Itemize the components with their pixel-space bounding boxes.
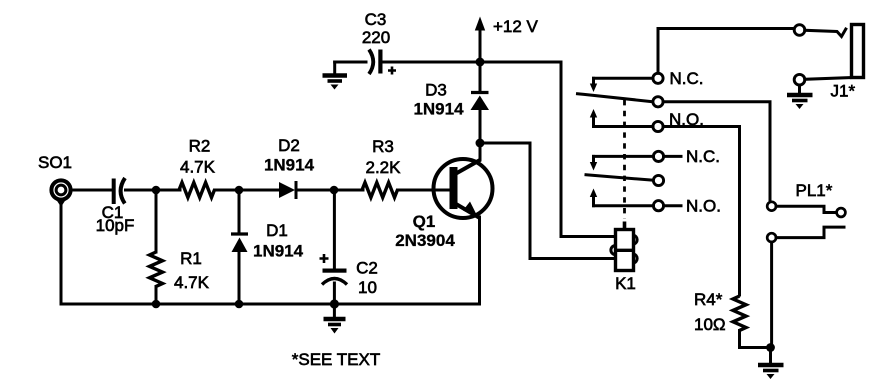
wire node to D2 <box>243 189 279 192</box>
wire D2 to node <box>297 189 330 192</box>
wire N.O.1 to R4 <box>663 127 740 296</box>
junction dot (C2/rail) <box>330 299 339 308</box>
svg-text:PL1*: PL1* <box>796 181 833 200</box>
wire node to R2 <box>160 189 180 192</box>
svg-text:C3: C3 <box>365 10 387 29</box>
contact N.O. pole1 <box>594 121 664 131</box>
capacitor C3 <box>369 50 380 75</box>
wire C1 to node <box>126 189 153 192</box>
plug PL1 sleeve terminal <box>767 227 844 242</box>
transistor Q1 <box>434 159 493 218</box>
ground (J1) <box>787 85 813 109</box>
relay coil K1 <box>611 222 637 271</box>
resistor R4 <box>733 296 766 348</box>
wire +12V rail to relay drop <box>484 62 615 237</box>
svg-text:10: 10 <box>358 278 377 297</box>
node dot (D2/C2/R3) <box>330 186 339 195</box>
diode D1 <box>231 194 248 300</box>
contact N.C. pole1 <box>590 73 663 92</box>
armature pole1 <box>578 94 654 102</box>
svg-text:R4*: R4* <box>694 290 723 309</box>
resistor R3 <box>362 183 397 198</box>
svg-text:D3: D3 <box>425 81 447 100</box>
ground (R4/PL1) <box>758 351 784 379</box>
plus sign C2 <box>320 254 329 263</box>
wire ground to C3 <box>335 61 366 64</box>
junction dot (collector node) <box>476 139 485 148</box>
resistor R2 <box>179 183 214 198</box>
svg-text:*SEE TEXT: *SEE TEXT <box>292 350 381 369</box>
wire node to R3 <box>338 189 363 192</box>
svg-text:4.7K: 4.7K <box>180 158 216 177</box>
wire N.C.1 up and to J1 tip <box>658 29 794 74</box>
contact N.C. pole2 <box>590 151 681 170</box>
ground (C2) <box>324 308 346 334</box>
wire R2 to node <box>215 189 236 192</box>
wire collector node to relay coil <box>484 143 615 259</box>
svg-text:D2: D2 <box>278 136 300 155</box>
svg-text:C2: C2 <box>356 259 378 278</box>
junction dot (+12V node) <box>476 58 485 67</box>
dashed mechanical link <box>623 100 626 219</box>
armature pole2 <box>586 175 654 181</box>
svg-text:N.C.: N.C. <box>670 69 704 88</box>
svg-text:1N914: 1N914 <box>253 242 304 261</box>
contact N.O. pole2 <box>594 201 682 211</box>
svg-text:4.7K: 4.7K <box>174 273 210 292</box>
wire PL1 sleeve down <box>770 242 773 345</box>
node dot (R2/D1/D2) <box>235 186 244 195</box>
junction dot (R1/rail) <box>152 300 161 309</box>
jack J1 body <box>852 25 864 78</box>
svg-text:SO1: SO1 <box>38 153 72 172</box>
wire SO1 to C1 <box>72 189 113 192</box>
wire common1 to PL1 <box>663 102 770 202</box>
svg-text:Q1: Q1 <box>413 212 436 231</box>
node dot (C1/R1/R2) <box>152 186 161 195</box>
common terminal pole1 <box>653 97 663 107</box>
svg-text:R2: R2 <box>189 137 211 156</box>
ground (C3) <box>323 62 348 90</box>
junction dot (D1/rail) <box>235 300 244 309</box>
wire Q1 emitter down to rail <box>478 217 481 304</box>
plug PL1 tip terminal <box>767 202 845 217</box>
plus sign C3 <box>388 67 396 75</box>
terminal circle (J1 sleeve) <box>794 74 805 85</box>
resistor R1 <box>150 194 163 300</box>
wire SO1 down to bottom rail <box>60 204 63 304</box>
wire C3 to +12V node <box>383 61 477 64</box>
capacitor C1 <box>114 178 125 204</box>
+12V arrow <box>475 17 485 63</box>
svg-text:10pF: 10pF <box>96 216 135 235</box>
svg-text:+12 V: +12 V <box>493 17 539 36</box>
svg-text:1N914: 1N914 <box>264 156 315 175</box>
junction dot (ground node) <box>766 343 775 352</box>
common terminal pole2 <box>653 175 663 185</box>
diode D3 <box>471 66 490 139</box>
svg-text:2.2K: 2.2K <box>366 158 402 177</box>
bottom rail <box>61 303 480 306</box>
svg-text:2N3904: 2N3904 <box>395 231 455 250</box>
connector SO1 <box>51 180 70 207</box>
wire Q1 collector up to node <box>479 140 482 160</box>
N.O. up-arrow pole1 <box>590 109 597 127</box>
wire R3 to Q1 base <box>398 189 451 192</box>
diode D2 <box>279 181 296 199</box>
N.O. up-arrow pole2 <box>590 189 597 206</box>
svg-text:N.C.: N.C. <box>686 147 720 166</box>
svg-text:R1: R1 <box>180 249 202 268</box>
wire to J1 tip spring <box>805 29 846 37</box>
svg-text:10Ω: 10Ω <box>694 315 726 334</box>
wire J1 sleeve <box>805 78 851 80</box>
svg-text:1N914: 1N914 <box>413 100 464 119</box>
svg-text:K1: K1 <box>615 274 636 293</box>
svg-text:R3: R3 <box>372 137 394 156</box>
terminal circle (J1 tip wire) <box>794 25 805 36</box>
capacitor C2 <box>322 194 347 300</box>
svg-text:220: 220 <box>362 28 390 47</box>
svg-text:J1*: J1* <box>831 82 856 101</box>
svg-text:N.O.: N.O. <box>686 197 721 216</box>
svg-text:D1: D1 <box>266 221 288 240</box>
